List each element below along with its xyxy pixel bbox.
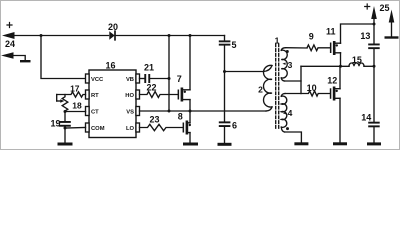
svg-text:2: 2 — [258, 85, 263, 95]
svg-text:24: 24 — [5, 39, 15, 49]
wire C13 to node — [373, 49, 375, 66]
svg-text:LO: LO — [126, 126, 135, 132]
wire center tap to L15 — [301, 65, 349, 67]
ground (C14) — [367, 142, 381, 145]
transistor Q12 — [330, 87, 340, 101]
wire VS line — [140, 110, 267, 112]
node bootstrap VB — [168, 77, 171, 80]
transistor Q7 — [178, 88, 190, 102]
svg-text:COM: COM — [91, 126, 105, 132]
pin HO stub — [136, 90, 140, 99]
transistor Q11 — [330, 41, 341, 55]
wire Q11 source — [340, 53, 342, 67]
polarity dot winding 3 — [286, 50, 289, 53]
pin VS stub — [136, 107, 140, 116]
pin COM stub — [86, 123, 90, 132]
svg-text:4: 4 — [288, 108, 293, 118]
wire winding3 bottom lead — [285, 80, 302, 82]
wire divider middle — [224, 46, 226, 122]
wire Q7 source — [189, 100, 191, 111]
leader arrow label 4 — [283, 112, 286, 114]
node VS switch — [189, 110, 192, 113]
svg-text:1: 1 — [275, 36, 280, 46]
svg-text:23: 23 — [149, 114, 159, 124]
svg-text:VS: VS — [126, 110, 134, 116]
wire Q7 drain — [189, 36, 191, 90]
pin RT stub — [86, 90, 90, 99]
border frame — [1, 1, 400, 150]
svg-text:8: 8 — [178, 111, 183, 121]
transformer core — [276, 44, 279, 130]
wire winding4 bottom to ground — [285, 132, 302, 142]
terminal arrow (- output) — [385, 10, 399, 39]
wire top rail left — [14, 35, 109, 37]
node rectified — [339, 65, 342, 68]
node Q7 drain rail — [189, 34, 192, 37]
wire winding3 top to R9 — [286, 47, 308, 49]
resistor R10 — [285, 91, 330, 96]
terminal arrow 24 (+ input) — [2, 23, 15, 40]
capacitor C6 — [219, 121, 231, 127]
svg-text:22: 22 — [146, 82, 156, 92]
wire Q12 drain — [339, 66, 341, 88]
wire top rail right — [116, 35, 225, 37]
node VCC rail junction — [40, 34, 43, 37]
wire bootstrap vertical — [168, 36, 170, 112]
svg-text:HO: HO — [125, 93, 134, 99]
svg-text:5: 5 — [231, 40, 236, 50]
terminal arrow (- input) — [1, 52, 25, 60]
capacitor C21 — [144, 74, 150, 83]
terminal arrow 25 (+ output) — [365, 4, 377, 24]
svg-text:3: 3 — [288, 60, 293, 70]
node bootstrap top — [168, 34, 171, 37]
capacitor C13 — [368, 44, 380, 50]
wire C19 to ground — [64, 127, 66, 143]
pin VCC stub — [86, 74, 90, 83]
svg-text:21: 21 — [144, 63, 154, 73]
resistor R17 — [57, 92, 86, 97]
potentiometer R18 wiper arrow — [57, 99, 65, 102]
resistor R22 — [140, 92, 178, 98]
node VS bootstrap — [168, 110, 171, 113]
inductor L15 — [349, 63, 364, 66]
ground (Q8) — [183, 143, 198, 146]
wire primary top lead — [225, 71, 264, 73]
wire Q8 source — [189, 133, 191, 143]
op-amp U1 IC 16 body — [89, 70, 136, 138]
svg-text:17: 17 — [70, 83, 80, 93]
wire output vertical — [373, 24, 375, 44]
node output top — [373, 23, 376, 26]
ground (C19/COM) — [58, 143, 73, 146]
svg-text:6: 6 — [232, 120, 237, 130]
pin CT stub — [86, 107, 90, 116]
wire filter down — [373, 66, 375, 121]
svg-text:20: 20 — [108, 22, 118, 32]
wire L15 to output — [364, 65, 374, 67]
capacitor C19 — [59, 121, 71, 127]
svg-text:18: 18 — [72, 101, 82, 111]
svg-text:VB: VB — [126, 77, 134, 83]
svg-text:9: 9 — [309, 32, 314, 42]
svg-text:7: 7 — [177, 74, 182, 84]
wire Q12 source to ground — [339, 98, 341, 142]
wire to C19 — [64, 112, 66, 122]
ground (Q12) — [333, 142, 347, 145]
ground (winding 4) — [294, 142, 308, 145]
wire COM — [65, 127, 86, 130]
ground (C6) — [218, 143, 232, 146]
capacitor C14 — [368, 122, 380, 128]
wire C6 to ground — [224, 127, 226, 143]
node divider mid — [223, 70, 226, 73]
ground (input) — [20, 60, 31, 62]
svg-text:14: 14 — [361, 113, 371, 123]
wire CT — [65, 111, 86, 113]
svg-text:13: 13 — [360, 31, 370, 41]
transformer secondary winding 3 — [281, 48, 287, 81]
svg-text:CT: CT — [91, 110, 99, 116]
resistor R9 — [307, 45, 330, 51]
svg-text:15: 15 — [352, 55, 362, 65]
svg-text:VCC: VCC — [91, 77, 104, 83]
diode 20 — [109, 31, 115, 40]
wire VCC drop — [41, 36, 86, 79]
wire C21 to bootstrap line — [150, 78, 169, 80]
svg-text:10: 10 — [307, 83, 317, 93]
svg-text:RT: RT — [91, 93, 99, 99]
wire Q11 drain to output — [341, 24, 375, 43]
polarity dot winding 4 — [286, 127, 289, 130]
pin VB stub — [136, 74, 140, 83]
wire divider top — [224, 36, 226, 41]
svg-text:11: 11 — [326, 27, 336, 37]
resistor R18 — [62, 95, 68, 112]
svg-text:12: 12 — [327, 75, 337, 85]
wire C14 to ground — [373, 127, 375, 142]
svg-text:16: 16 — [105, 61, 115, 71]
node CT — [64, 110, 67, 113]
node filter — [373, 65, 376, 68]
wire pot left — [56, 95, 58, 102]
resistor R23 — [140, 124, 183, 130]
svg-text:25: 25 — [379, 3, 389, 13]
transistor Q8 — [183, 121, 191, 135]
transformer primary winding 2 — [264, 65, 273, 111]
pin LO stub — [136, 123, 140, 132]
wire Q8 drain — [189, 111, 191, 123]
wire VB — [140, 78, 145, 80]
transformer secondary winding 4 — [281, 94, 287, 133]
capacitor C5 — [219, 40, 231, 45]
leader arrow label 3 — [282, 63, 285, 65]
svg-text:19: 19 — [50, 118, 60, 128]
wire center tap vertical — [300, 66, 302, 93]
node COM — [64, 127, 67, 130]
